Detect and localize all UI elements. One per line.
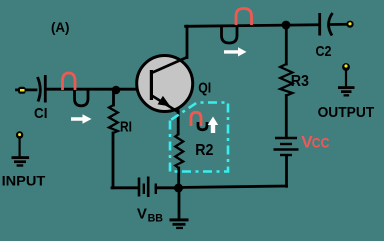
svg-text:C2: C2 [316,43,332,60]
svg-text:CI: CI [34,105,48,122]
svg-text:(A): (A) [51,19,70,35]
svg-text:BB: BB [148,212,163,224]
svg-text:CC: CC [312,135,330,151]
svg-text:RI: RI [120,118,132,135]
svg-text:INPUT: INPUT [2,172,46,188]
svg-text:OUTPUT: OUTPUT [318,105,375,121]
svg-text:R2: R2 [195,142,213,159]
svg-text:QI: QI [198,79,211,96]
svg-text:V: V [137,205,147,222]
svg-text:R3: R3 [291,73,310,90]
